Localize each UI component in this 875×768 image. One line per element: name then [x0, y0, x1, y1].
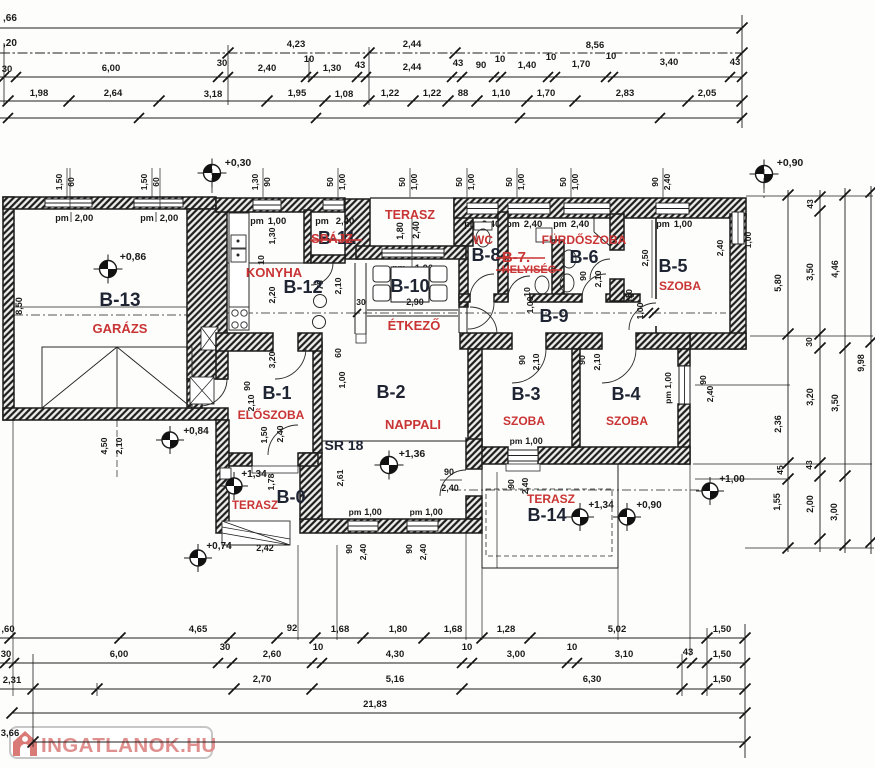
svg-text:90: 90	[262, 177, 272, 187]
svg-text:3,00: 3,00	[507, 649, 526, 660]
svg-text:43: 43	[730, 57, 741, 68]
svg-text:+1,34: +1,34	[241, 469, 267, 480]
svg-text:1,00: 1,00	[425, 507, 443, 517]
svg-text:90: 90	[476, 60, 487, 71]
nappali south wall	[300, 519, 482, 533]
svg-text:90: 90	[344, 544, 354, 554]
svg-text:1,68: 1,68	[444, 624, 463, 635]
B-6 fixtures	[562, 250, 576, 268]
svg-text:B-1: B-1	[262, 383, 291, 403]
svg-text:B-5: B-5	[658, 256, 687, 276]
svg-text:1,50: 1,50	[713, 674, 732, 685]
svg-text:3,50: 3,50	[830, 394, 840, 412]
svg-text:GARÁZS: GARÁZS	[93, 321, 148, 336]
svg-text:1,30: 1,30	[250, 173, 260, 190]
B-4 east wall	[678, 349, 690, 366]
svg-text:6,00: 6,00	[110, 649, 129, 660]
entrance threshold	[252, 466, 298, 473]
svg-text:B-2: B-2	[376, 382, 405, 402]
svg-text:2,44: 2,44	[403, 62, 422, 73]
svg-text:60: 60	[151, 177, 161, 187]
svg-text:1,00: 1,00	[674, 219, 693, 230]
svg-text:SR 18: SR 18	[325, 437, 364, 453]
kitchen counter with sink and stove	[229, 213, 249, 330]
bottom dimension chain rows	[0, 420, 751, 758]
svg-text:1,50: 1,50	[259, 426, 269, 443]
svg-text:4,30: 4,30	[386, 649, 405, 660]
svg-text:90: 90	[404, 544, 414, 554]
svg-text:10: 10	[495, 54, 506, 65]
svg-text:30: 30	[217, 58, 228, 69]
svg-text:B-8: B-8	[471, 245, 500, 265]
svg-text:2,10: 2,10	[592, 353, 602, 370]
svg-text:3,50: 3,50	[805, 263, 815, 281]
svg-text:2,05: 2,05	[698, 88, 717, 99]
svg-text:1,40: 1,40	[518, 60, 537, 71]
SR 18 beam line	[322, 440, 466, 442]
svg-text:45: 45	[775, 465, 785, 475]
svg-text:1,00: 1,00	[466, 173, 476, 190]
svg-text:2,61: 2,61	[335, 469, 345, 486]
svg-text:1,55: 1,55	[772, 493, 782, 511]
svg-text:3,18: 3,18	[204, 89, 223, 100]
svg-text:92: 92	[287, 623, 298, 634]
watermark logo and text	[10, 727, 217, 758]
garage interior lines	[14, 306, 187, 308]
svg-text:6,00: 6,00	[102, 63, 121, 74]
svg-text:90: 90	[517, 355, 527, 365]
svg-text:30: 30	[1, 649, 12, 660]
svg-text:1,00: 1,00	[525, 436, 543, 446]
svg-text:B-10: B-10	[390, 276, 429, 296]
svg-text:SPÁJZ: SPÁJZ	[311, 231, 353, 246]
svg-text:2,40: 2,40	[358, 543, 368, 560]
svg-text:9,98: 9,98	[856, 354, 866, 372]
svg-text:pm: pm	[140, 213, 154, 223]
B-0 terrace steps	[222, 521, 290, 545]
svg-text:43: 43	[804, 460, 814, 470]
svg-text:2,90: 2,90	[406, 297, 424, 307]
svg-text:1,30: 1,30	[267, 227, 277, 244]
svg-text:8,56: 8,56	[586, 40, 605, 51]
svg-text:2,36: 2,36	[773, 415, 783, 433]
svg-text:1,00: 1,00	[268, 216, 287, 227]
garage small cabinet	[190, 377, 214, 404]
svg-text:B-12: B-12	[283, 277, 322, 297]
svg-text:KONYHA: KONYHA	[246, 265, 303, 280]
svg-text:50: 50	[325, 177, 335, 187]
svg-text:3,20: 3,20	[267, 351, 277, 368]
svg-text:2,40: 2,40	[418, 543, 428, 560]
eloszoba west wall	[216, 346, 228, 379]
svg-text:5,80: 5,80	[773, 274, 783, 292]
svg-text:SZOBA: SZOBA	[606, 414, 648, 428]
svg-text:5,16: 5,16	[386, 674, 405, 685]
svg-text:50: 50	[558, 177, 568, 187]
kitchen spajz divider	[304, 210, 311, 263]
svg-text:2,40: 2,40	[571, 219, 590, 230]
svg-text:B-13: B-13	[99, 290, 140, 311]
B-3 B-4 south wall	[468, 447, 508, 464]
step wall right of corridor	[690, 333, 746, 349]
corridor jambs	[458, 302, 460, 333]
svg-text:+0,30: +0,30	[225, 157, 252, 169]
svg-text:5,02: 5,02	[608, 624, 627, 635]
svg-text:SZOBA: SZOBA	[659, 279, 701, 293]
main house top wall	[216, 198, 345, 212]
svg-text:pm: pm	[55, 213, 69, 223]
svg-text:B-4: B-4	[611, 384, 640, 404]
svg-text:TERASZ: TERASZ	[385, 208, 435, 222]
WC toilet	[474, 222, 492, 230]
svg-text:10: 10	[462, 642, 473, 653]
svg-text:pm: pm	[315, 216, 329, 226]
svg-text:B-6: B-6	[569, 247, 598, 267]
svg-text:2,64: 2,64	[104, 88, 123, 99]
svg-text:88: 88	[458, 88, 469, 99]
svg-text:1,30: 1,30	[323, 63, 342, 74]
B-6 east wall	[610, 214, 624, 250]
svg-text:50: 50	[397, 177, 407, 187]
svg-text:1,80: 1,80	[395, 222, 405, 240]
svg-text:2,40: 2,40	[336, 216, 355, 227]
svg-text:43: 43	[453, 58, 464, 69]
svg-text:10: 10	[606, 51, 617, 62]
svg-text:30: 30	[356, 297, 366, 307]
svg-text:4,46: 4,46	[830, 260, 840, 278]
garage door chevron	[42, 347, 192, 408]
svg-text:2,40: 2,40	[258, 63, 277, 74]
svg-text:50: 50	[454, 177, 464, 187]
svg-text:30: 30	[220, 642, 231, 653]
svg-text:2,40: 2,40	[705, 385, 715, 402]
B-14 terrace outline	[481, 464, 483, 568]
svg-text:60: 60	[333, 348, 343, 358]
svg-text:2,40: 2,40	[715, 239, 725, 256]
svg-text:30: 30	[2, 64, 13, 75]
svg-text:B-0: B-0	[276, 487, 305, 507]
svg-text:TERASZ: TERASZ	[527, 492, 575, 506]
svg-text:43: 43	[683, 647, 694, 658]
strike through SPÁJZ/B-11	[310, 239, 362, 241]
svg-text:+0,74: +0,74	[206, 541, 232, 552]
svg-text:pm: pm	[250, 216, 264, 226]
svg-text:2,00: 2,00	[805, 495, 815, 513]
svg-text:2,60: 2,60	[263, 649, 282, 660]
svg-text:B-9: B-9	[539, 306, 568, 326]
svg-text:1,22: 1,22	[381, 88, 400, 99]
svg-text:1,00: 1,00	[364, 507, 382, 517]
svg-text:,20: ,20	[3, 38, 17, 49]
terasz top edge	[370, 197, 454, 199]
svg-text:3,00: 3,00	[829, 503, 839, 521]
svg-text:1,50: 1,50	[54, 173, 64, 190]
svg-text:2,20: 2,20	[267, 286, 277, 303]
svg-text:INGATLANOK.HU: INGATLANOK.HU	[41, 734, 217, 757]
elevation marker +0,30	[198, 159, 227, 188]
nappali west wall	[313, 342, 322, 453]
B-7 B-6 divider	[552, 240, 564, 301]
svg-text:60: 60	[66, 177, 76, 187]
svg-text:1,00: 1,00	[635, 302, 645, 319]
garage outer walls	[3, 197, 14, 420]
svg-text:10: 10	[624, 289, 634, 299]
svg-text:1,80: 1,80	[389, 624, 408, 635]
svg-text:+0,90: +0,90	[777, 157, 804, 169]
svg-text:1,22: 1,22	[423, 88, 442, 99]
svg-text:2,50: 2,50	[640, 249, 650, 266]
svg-text:1,28: 1,28	[497, 624, 516, 635]
elevation marker +0,90 top right	[750, 160, 779, 189]
svg-text:2,40: 2,40	[441, 483, 459, 493]
svg-text:B-3: B-3	[511, 384, 540, 404]
svg-text:+1,34: +1,34	[588, 500, 614, 511]
svg-text:10: 10	[313, 642, 324, 653]
svg-text:ÉTKEZŐ: ÉTKEZŐ	[388, 318, 441, 333]
svg-text:2,70: 2,70	[253, 674, 272, 685]
corridor south wall	[460, 333, 512, 349]
svg-text:1,00: 1,00	[409, 173, 419, 190]
B-7 basin	[536, 228, 552, 242]
svg-text:+0,84: +0,84	[183, 426, 209, 437]
svg-text:1,00: 1,00	[743, 231, 753, 248]
svg-text:pm: pm	[656, 219, 670, 229]
svg-text:3,40: 3,40	[660, 57, 679, 68]
svg-text:3,20: 3,20	[805, 388, 815, 406]
svg-text:,60: ,60	[1, 624, 14, 635]
svg-text:2,42: 2,42	[256, 543, 274, 553]
svg-text:30: 30	[804, 337, 814, 347]
svg-text:6,30: 6,30	[583, 674, 602, 685]
svg-text:2,10: 2,10	[593, 270, 603, 287]
svg-text:21,83: 21,83	[363, 699, 387, 710]
svg-text:2,10: 2,10	[114, 437, 124, 454]
spajz south wall	[311, 255, 345, 263]
svg-text:10: 10	[522, 287, 532, 297]
svg-text:TERASZ: TERASZ	[232, 500, 278, 512]
svg-text:90: 90	[698, 375, 708, 385]
svg-text:1,00: 1,00	[516, 173, 526, 190]
svg-text:pm: pm	[410, 507, 423, 517]
svg-text:SZOBA: SZOBA	[503, 414, 545, 428]
B-0 west wall	[216, 420, 229, 533]
svg-text:ELŐSZOBA: ELŐSZOBA	[238, 407, 305, 422]
svg-text:2,31: 2,31	[3, 675, 22, 686]
svg-text:4,65: 4,65	[189, 624, 208, 635]
svg-text:3,66: 3,66	[1, 728, 20, 739]
svg-text:+1,36: +1,36	[399, 448, 426, 460]
svg-text:1,70: 1,70	[537, 88, 556, 99]
svg-text:1,08: 1,08	[335, 89, 354, 100]
svg-text:1,95: 1,95	[288, 88, 307, 99]
kitchen stools	[314, 295, 327, 308]
svg-text:1,00: 1,00	[337, 371, 347, 388]
elevation markers inside plan	[375, 451, 404, 480]
garage flue box	[201, 327, 218, 350]
svg-text:,66: ,66	[3, 13, 17, 24]
nappali east wall	[466, 439, 482, 469]
svg-text:2,83: 2,83	[616, 88, 635, 99]
svg-text:2,10: 2,10	[333, 277, 343, 294]
door arcs	[200, 259, 656, 496]
svg-text:2,10: 2,10	[531, 353, 541, 370]
svg-text:1,98: 1,98	[30, 88, 49, 99]
small sill-height labels above top wall	[54, 168, 672, 197]
svg-text:1,00: 1,00	[525, 296, 535, 313]
svg-text:90: 90	[444, 467, 454, 477]
svg-text:43: 43	[805, 199, 815, 209]
svg-text:pm: pm	[553, 219, 567, 229]
svg-text:+1,00: +1,00	[719, 474, 745, 485]
svg-text:50: 50	[504, 177, 514, 187]
B-3/B-4 divider wall	[572, 349, 580, 447]
svg-text:1,78: 1,78	[266, 473, 276, 490]
svg-text:2,40: 2,40	[275, 425, 285, 442]
svg-text:2,40: 2,40	[662, 173, 672, 190]
svg-text:2,40: 2,40	[411, 221, 421, 239]
svg-text:90: 90	[578, 271, 588, 281]
svg-text:1,50: 1,50	[139, 173, 149, 190]
svg-text:+0,86: +0,86	[120, 251, 147, 263]
top wall windows	[253, 200, 281, 210]
terasz south window wall	[356, 246, 466, 259]
svg-text:pm: pm	[510, 436, 523, 446]
svg-text:43: 43	[355, 60, 366, 71]
svg-text:90: 90	[242, 381, 252, 391]
svg-text:4,50: 4,50	[99, 437, 109, 454]
svg-text:1,50: 1,50	[713, 649, 732, 660]
east exterior wall	[730, 214, 746, 349]
garage elevation marker +0,86	[94, 255, 123, 284]
WC west wall	[459, 246, 468, 307]
svg-text:2,00: 2,00	[160, 213, 179, 224]
svg-text:1,10: 1,10	[492, 88, 511, 99]
svg-text:90: 90	[506, 479, 516, 489]
svg-text:1,00: 1,00	[337, 173, 347, 190]
svg-text:1,68: 1,68	[331, 624, 350, 635]
svg-text:90: 90	[650, 177, 660, 187]
kitchen south wall	[216, 333, 273, 351]
svg-text:1,00: 1,00	[570, 173, 580, 190]
svg-text:2,00: 2,00	[75, 213, 94, 224]
B-5 west partition	[655, 218, 657, 299]
svg-text:10: 10	[546, 52, 557, 63]
svg-text:WC: WC	[473, 233, 493, 247]
B-0 small box	[220, 468, 231, 479]
svg-text:pm: pm	[349, 507, 362, 517]
right side dimension chains	[693, 186, 875, 554]
B-3 west wall	[468, 349, 482, 447]
svg-text:10: 10	[567, 642, 578, 653]
B-0 north wall w/ entrance	[216, 453, 252, 466]
garage windows	[45, 199, 92, 207]
bath south wall	[459, 294, 470, 302]
svg-text:B-14: B-14	[527, 505, 566, 525]
etkezo konyha divider lines	[354, 263, 356, 334]
svg-text:+0,90: +0,90	[636, 500, 662, 511]
svg-text:FÜRDŐSZOBA: FÜRDŐSZOBA	[542, 232, 627, 247]
svg-text:8,50: 8,50	[14, 297, 24, 315]
svg-text:4,23: 4,23	[287, 39, 306, 50]
svg-text:2,44: 2,44	[403, 39, 422, 50]
top dimension chain rows	[0, 13, 748, 128]
svg-text:90: 90	[577, 355, 587, 365]
svg-text:NAPPALI: NAPPALI	[385, 417, 441, 432]
svg-text:1,50: 1,50	[713, 624, 732, 635]
WC B-7 divider	[498, 212, 508, 301]
svg-text:1,70: 1,70	[572, 59, 591, 70]
etkezo table and chairs	[391, 267, 429, 302]
svg-text:10: 10	[256, 255, 266, 265]
svg-text:3,10: 3,10	[615, 649, 634, 660]
svg-text:pm 1,00: pm 1,00	[663, 372, 673, 404]
